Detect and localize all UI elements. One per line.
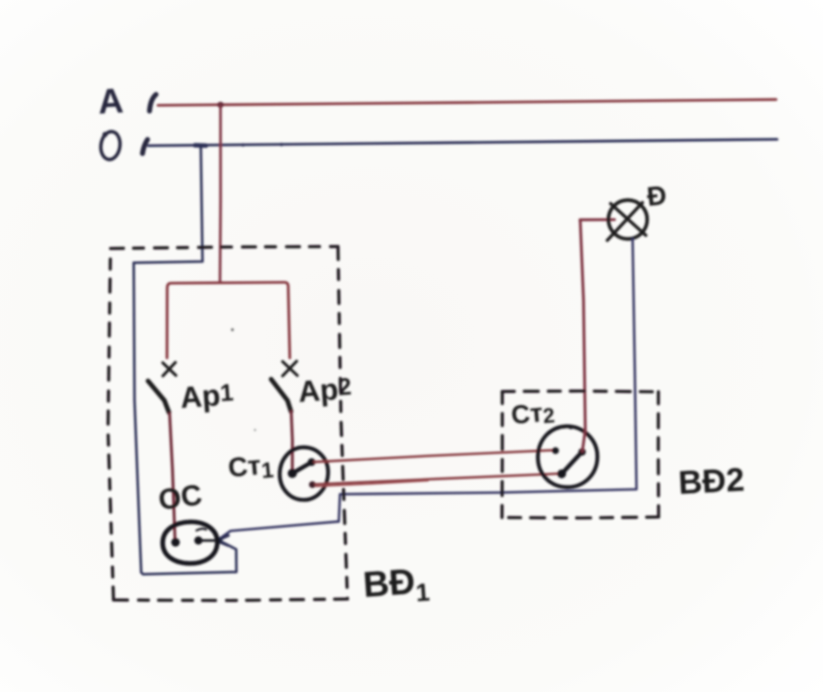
enclosure BD1 dashed box (108, 247, 348, 601)
wire Ap1 to socket OC (170, 414, 175, 541)
switch CT2 left contact (552, 447, 559, 454)
node A label (97, 81, 124, 121)
socket pin right (194, 536, 202, 544)
wire bus 0 (149, 139, 778, 145)
wire diagonal into socket junction (218, 522, 339, 541)
wire CT1 to CT2 lower (315, 474, 561, 485)
svg-text:A: A (97, 81, 124, 121)
svg-text:ВĐ2: ВĐ2 (677, 461, 745, 501)
wire lamp neutral down to BD2 and left (339, 239, 637, 522)
switch CT1 toggle (288, 458, 316, 478)
speck 2 (254, 429, 256, 431)
wire bus A (158, 100, 776, 106)
wire CT2 to lamp (phase) (580, 220, 615, 452)
lamp cross (607, 203, 646, 241)
contact X of breaker Ap1 (163, 362, 176, 376)
enclosure BD2 dashed box (502, 391, 659, 518)
wire tick A (150, 95, 157, 112)
wire lower doubled stroke (316, 481, 428, 487)
node arrow kink at socket junction (217, 536, 229, 546)
node junction on 0 (195, 143, 206, 148)
switch CT1 lower contact (309, 481, 316, 488)
svg-text:Đ: Đ (645, 180, 668, 212)
switch CT1 body (280, 447, 328, 500)
switch CT2 body (538, 426, 598, 487)
wire CT1 to CT2 upper (314, 450, 554, 462)
wire red distribution bar with two drops (167, 282, 290, 358)
wire phase drop from A into BD1 (219, 105, 222, 281)
node 0 label (99, 130, 122, 160)
contact X of breaker Ap2 (283, 361, 298, 376)
wire BD1 left neutral down side (134, 263, 142, 573)
node blob 2 on bus 0 (280, 143, 283, 146)
node junction right of socket (216, 537, 223, 544)
wire Ap2 to switch CT1 (291, 412, 292, 473)
wire BD1 bottom neutral to socket (141, 541, 236, 575)
speck (231, 328, 234, 331)
switch CT2 toggle (557, 448, 586, 478)
lamp body (608, 200, 647, 239)
svg-text:ОС: ОС (157, 479, 205, 517)
socket OC body (163, 522, 218, 564)
node junction on A (217, 102, 223, 108)
switch CT2 top squiggle (558, 426, 571, 428)
breaker blade Ap1 (148, 381, 169, 413)
socket inner squiggle (197, 529, 207, 531)
wire tick 0 (143, 140, 148, 154)
node blob 1 on bus 0 (241, 143, 244, 146)
socket pin left (171, 538, 180, 547)
breaker blade Ap2 (271, 379, 291, 411)
wire neutral drop from bus 0 into BD1 (134, 146, 203, 263)
wire socket right pin stub (198, 539, 217, 542)
